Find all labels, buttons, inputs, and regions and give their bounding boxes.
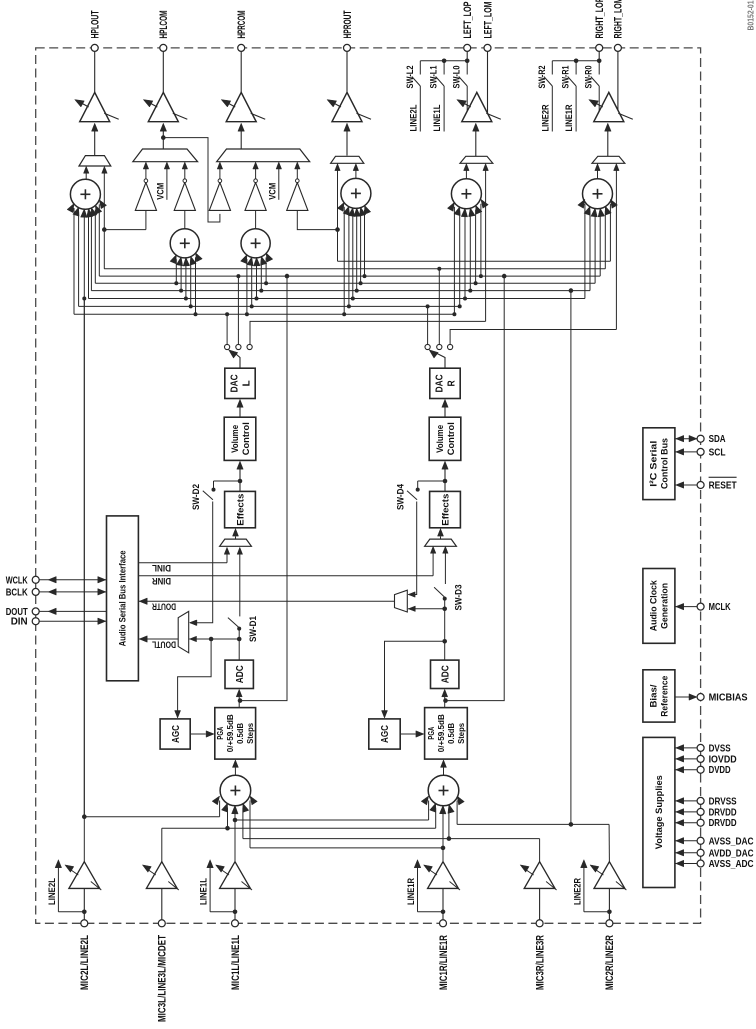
- svg-text:LINE1R: LINE1R: [406, 878, 417, 905]
- svg-text:Steps: Steps: [456, 723, 466, 744]
- svg-text:DOUTR: DOUTR: [152, 601, 176, 612]
- svg-text:SDA: SDA: [709, 434, 726, 445]
- svg-text:MICBIAS: MICBIAS: [709, 693, 748, 704]
- svg-text:SW-D3: SW-D3: [454, 585, 465, 611]
- svg-text:Effects: Effects: [440, 494, 451, 526]
- svg-text:Steps: Steps: [245, 723, 255, 744]
- svg-text:AVSS_ADC: AVSS_ADC: [709, 859, 754, 870]
- svg-text:RIGHT_LOP: RIGHT_LOP: [594, 0, 606, 39]
- svg-text:IOVDD: IOVDD: [709, 754, 737, 765]
- svg-text:LINE2R: LINE2R: [540, 104, 551, 131]
- svg-text:SW-R0: SW-R0: [584, 66, 595, 89]
- svg-text:VCM: VCM: [156, 183, 167, 200]
- svg-text:RESET: RESET: [709, 481, 737, 492]
- svg-text:LINE2L: LINE2L: [408, 104, 419, 131]
- svg-text:HPRCOM: HPRCOM: [236, 11, 248, 39]
- svg-text:DRVDD: DRVDD: [709, 807, 737, 818]
- svg-text:ADC: ADC: [234, 665, 246, 683]
- svg-text:Control Bus: Control Bus: [660, 438, 671, 489]
- svg-text:WCLK: WCLK: [6, 575, 29, 586]
- svg-text:SW-D4: SW-D4: [395, 483, 406, 510]
- svg-text:DINL: DINL: [152, 562, 171, 573]
- svg-text:MIC3L/LINE3L/MICDET: MIC3L/LINE3L/MICDET: [157, 935, 169, 1022]
- svg-text:DRVSS: DRVSS: [709, 796, 737, 807]
- svg-text:Voltage Supplies: Voltage Supplies: [654, 775, 665, 849]
- svg-text:PGA: PGA: [426, 727, 436, 740]
- svg-text:Generation: Generation: [660, 583, 671, 629]
- svg-text:0.5dB: 0.5dB: [446, 723, 456, 744]
- svg-text:SW-R1: SW-R1: [561, 65, 572, 89]
- svg-text:DAC: DAC: [434, 374, 446, 392]
- svg-text:L: L: [241, 380, 253, 387]
- svg-text:Effects: Effects: [235, 494, 246, 526]
- svg-text:Control: Control: [241, 422, 252, 455]
- svg-text:VCM: VCM: [267, 183, 278, 200]
- svg-text:DAC: DAC: [229, 374, 241, 392]
- svg-text:MIC1R/LINE1R: MIC1R/LINE1R: [438, 935, 450, 990]
- svg-text:Control: Control: [446, 422, 457, 455]
- svg-text:SW-L0: SW-L0: [452, 66, 463, 89]
- svg-text:AVSS_DAC: AVSS_DAC: [709, 836, 754, 847]
- svg-text:DINR: DINR: [152, 575, 171, 586]
- svg-text:I²C Serial: I²C Serial: [649, 441, 660, 487]
- svg-text:HPLOUT: HPLOUT: [90, 10, 102, 38]
- svg-text:Volume: Volume: [230, 425, 241, 453]
- svg-text:Reference: Reference: [660, 676, 671, 717]
- svg-text:DVSS: DVSS: [709, 743, 731, 754]
- svg-text:0/+59.5dB: 0/+59.5dB: [225, 714, 235, 752]
- svg-text:AGC: AGC: [170, 725, 182, 743]
- svg-text:Volume: Volume: [435, 425, 446, 453]
- svg-text:0/+59.5dB: 0/+59.5dB: [436, 714, 446, 752]
- svg-text:PGA: PGA: [215, 727, 225, 740]
- svg-text:LEFT_LOM: LEFT_LOM: [482, 2, 494, 39]
- svg-text:B0152-01: B0152-01: [747, 0, 756, 30]
- svg-text:LINE2L: LINE2L: [47, 878, 58, 905]
- svg-text:MIC1L/LINE1L: MIC1L/LINE1L: [230, 935, 242, 990]
- svg-text:Bias/: Bias/: [649, 684, 660, 707]
- svg-text:DVDD: DVDD: [709, 765, 731, 776]
- svg-text:BCLK: BCLK: [6, 587, 29, 598]
- svg-text:LINE1R: LINE1R: [564, 104, 575, 131]
- svg-text:Audio Clock: Audio Clock: [649, 580, 660, 632]
- svg-text:Audio Serial Bus Interface: Audio Serial Bus Interface: [118, 550, 128, 646]
- svg-text:R: R: [446, 380, 458, 386]
- svg-text:0.5dB: 0.5dB: [235, 723, 245, 744]
- svg-text:SW-L1: SW-L1: [429, 65, 440, 89]
- svg-text:LINE1L: LINE1L: [199, 878, 210, 905]
- svg-text:MIC3R/LINE3R: MIC3R/LINE3R: [534, 935, 546, 990]
- svg-text:AVDD_DAC: AVDD_DAC: [709, 848, 754, 859]
- svg-text:DRVDD: DRVDD: [709, 818, 737, 829]
- svg-text:MCLK: MCLK: [709, 602, 732, 613]
- svg-text:LINE1L: LINE1L: [432, 104, 443, 131]
- svg-text:MIC2L/LINE2L: MIC2L/LINE2L: [79, 935, 91, 990]
- svg-text:SW-L2: SW-L2: [405, 66, 416, 89]
- svg-text:RIGHT_LOM: RIGHT_LOM: [613, 0, 625, 39]
- svg-text:SW-R2: SW-R2: [537, 66, 548, 89]
- svg-text:LEFT_LOP: LEFT_LOP: [462, 2, 474, 39]
- svg-text:LINE2R: LINE2R: [572, 878, 583, 905]
- svg-text:DOUTL: DOUTL: [152, 638, 176, 649]
- svg-text:SW-D1: SW-D1: [248, 615, 259, 642]
- svg-text:SCL: SCL: [709, 447, 726, 458]
- svg-text:HPLCOM: HPLCOM: [158, 11, 170, 39]
- svg-text:ADC: ADC: [439, 665, 451, 683]
- svg-text:SW-D2: SW-D2: [191, 484, 202, 510]
- svg-text:AGC: AGC: [379, 725, 391, 743]
- svg-text:DIN: DIN: [11, 617, 28, 628]
- svg-text:HPROUT: HPROUT: [342, 10, 354, 38]
- svg-text:MIC2R/LINE2R: MIC2R/LINE2R: [604, 935, 616, 990]
